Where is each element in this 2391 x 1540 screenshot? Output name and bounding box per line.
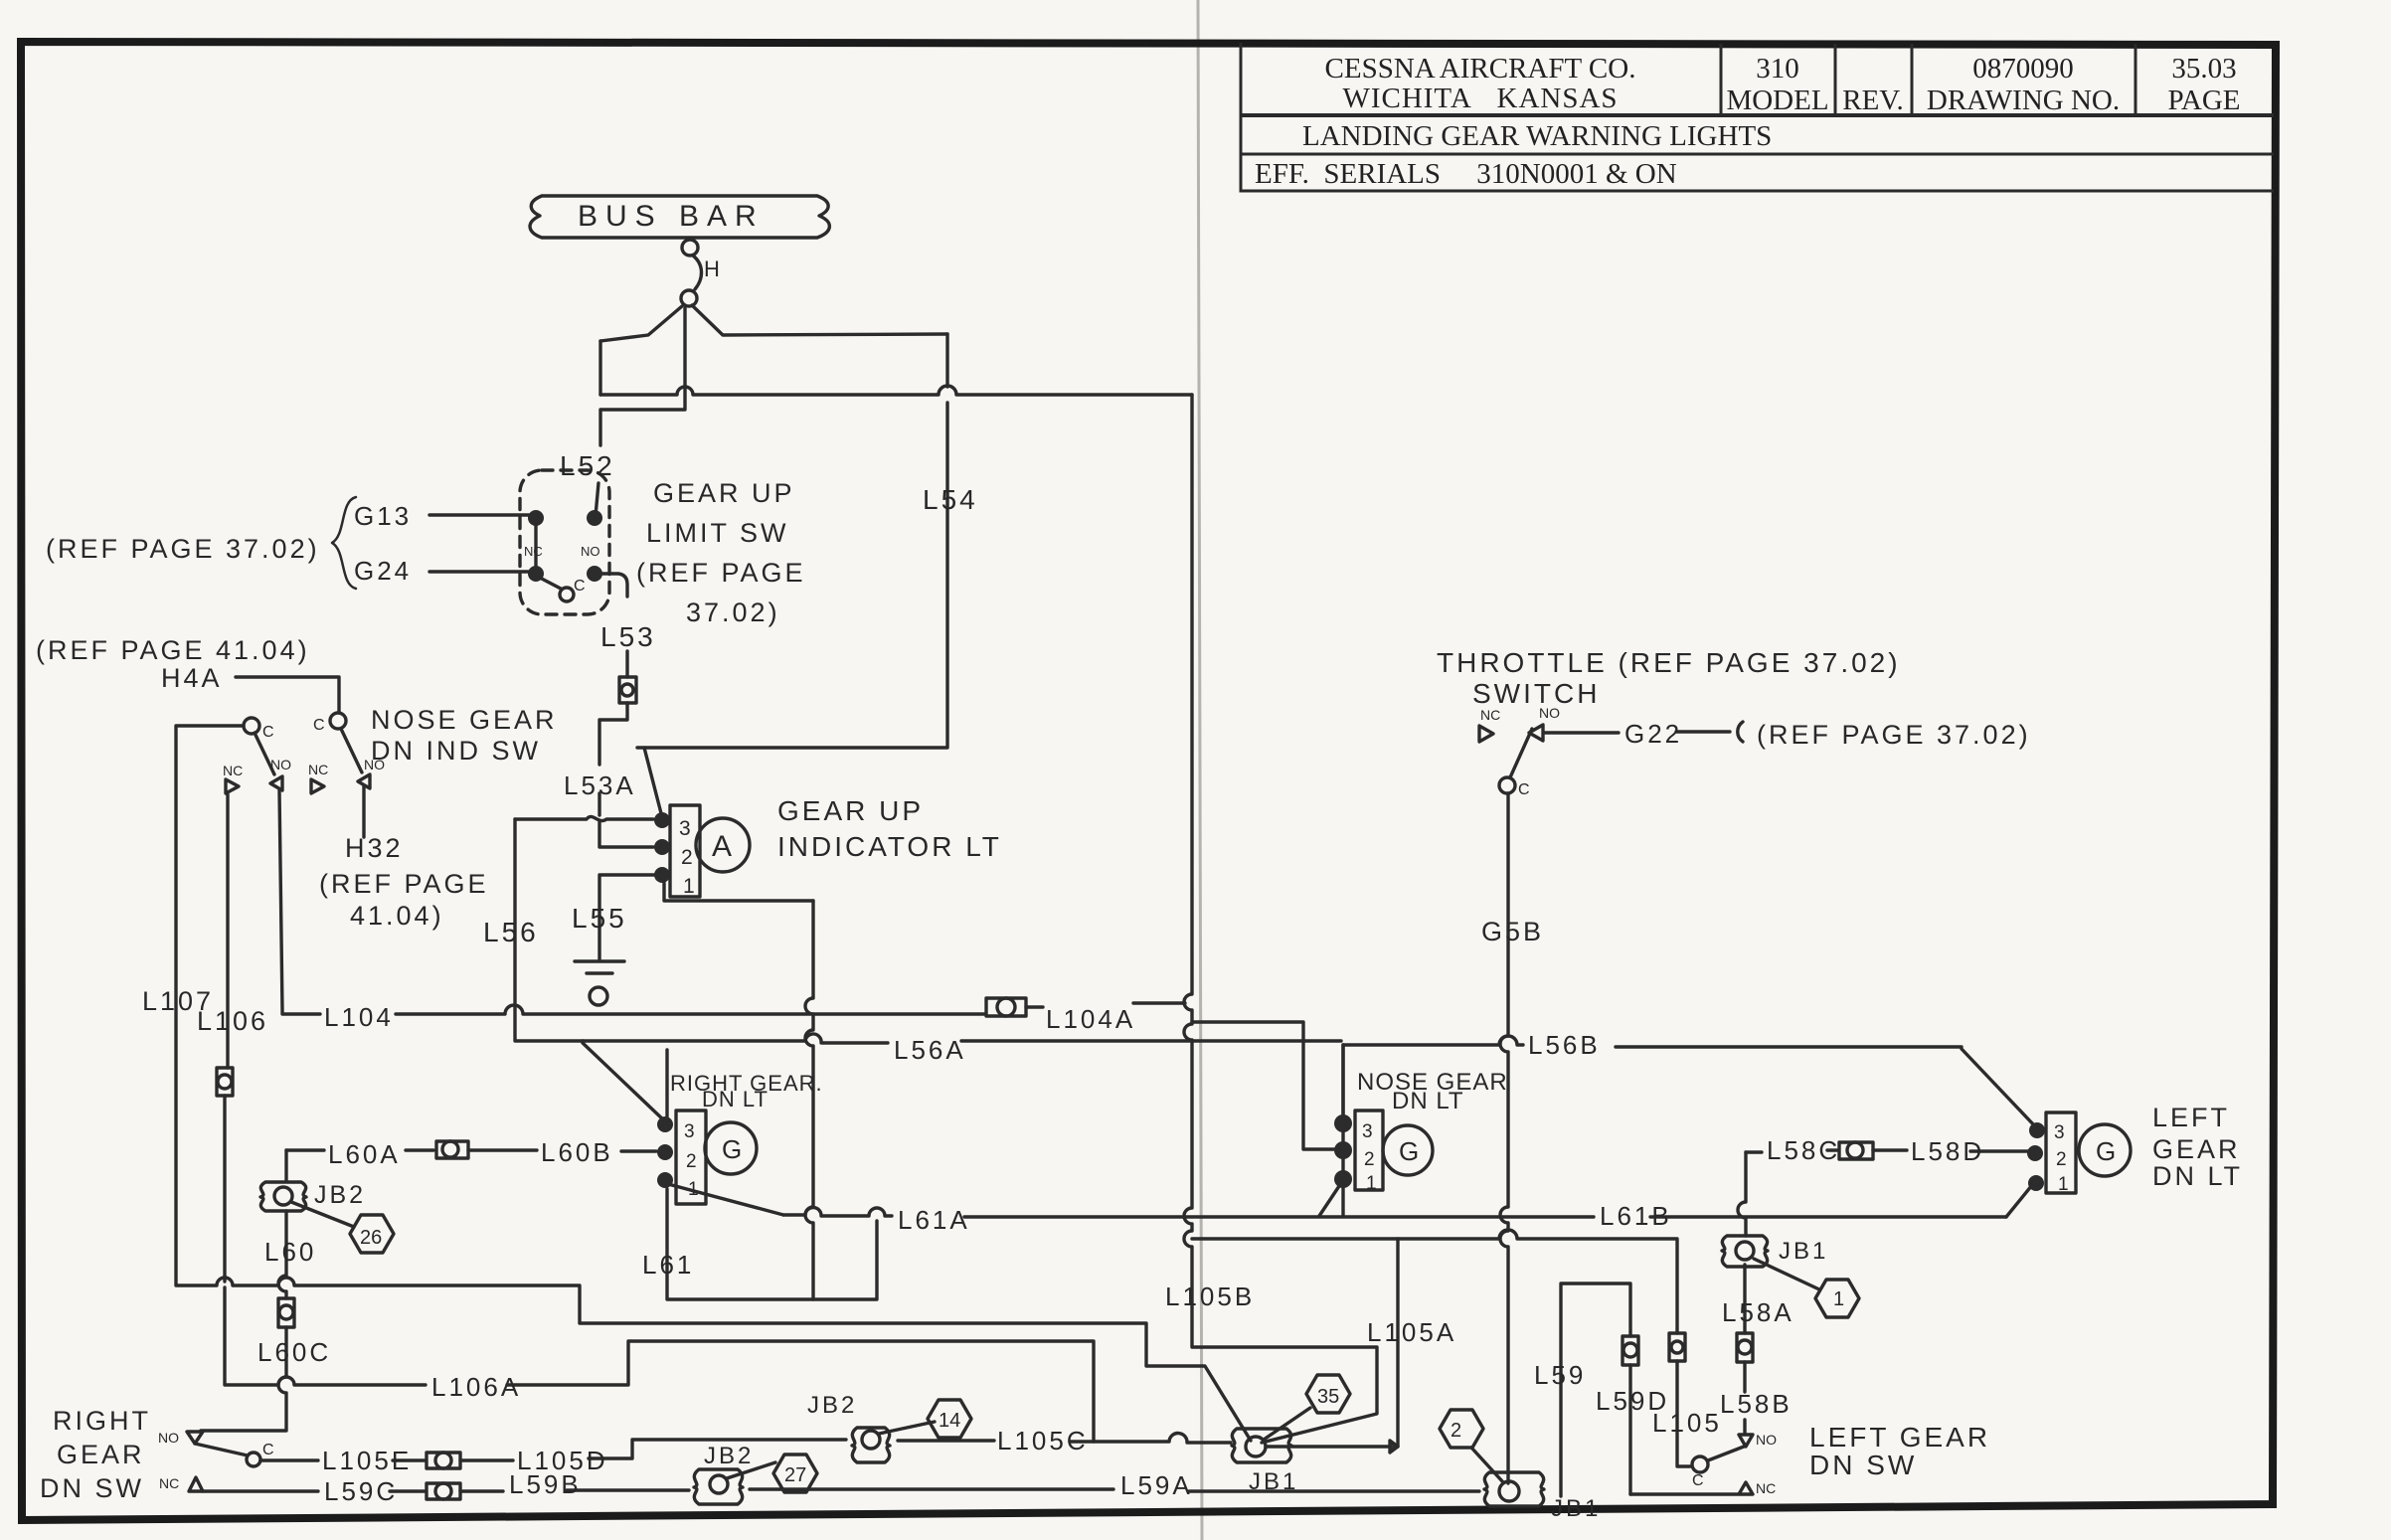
svg-text:NO: NO xyxy=(1539,705,1560,721)
svg-text:(REF PAGE 41.04): (REF PAGE 41.04) xyxy=(36,635,310,665)
svg-text:JB2: JB2 xyxy=(704,1443,754,1469)
svg-text:G13: G13 xyxy=(354,501,412,531)
svg-text:NC: NC xyxy=(1756,1480,1776,1496)
svg-text:L60: L60 xyxy=(264,1237,316,1267)
svg-text:L106A: L106A xyxy=(431,1372,521,1402)
svg-text:2: 2 xyxy=(686,1151,697,1172)
svg-text:L58A: L58A xyxy=(1722,1297,1794,1327)
svg-text:L105B: L105B xyxy=(1165,1282,1255,1311)
svg-text:37.02): 37.02) xyxy=(686,598,780,627)
svg-text:3: 3 xyxy=(2054,1122,2065,1143)
svg-text:DN IND SW: DN IND SW xyxy=(371,736,541,766)
svg-text:DN LT: DN LT xyxy=(1392,1088,1464,1114)
svg-text:L60C: L60C xyxy=(257,1337,331,1367)
svg-text:LEFT GEAR: LEFT GEAR xyxy=(1809,1422,1990,1453)
svg-text:41.04): 41.04) xyxy=(350,901,444,931)
svg-text:3: 3 xyxy=(1362,1121,1373,1142)
svg-text:14: 14 xyxy=(939,1410,960,1432)
svg-text:G: G xyxy=(2096,1136,2116,1166)
svg-text:L61: L61 xyxy=(642,1250,694,1280)
svg-text:THROTTLE (REF PAGE 37.02): THROTTLE (REF PAGE 37.02) xyxy=(1437,647,1901,678)
svg-text:DN SW: DN SW xyxy=(40,1473,144,1503)
svg-text:L59: L59 xyxy=(1534,1360,1586,1390)
svg-text:1: 1 xyxy=(683,875,695,898)
svg-text:(REF PAGE: (REF PAGE xyxy=(636,558,806,588)
svg-text:GEAR UP: GEAR UP xyxy=(653,478,795,508)
svg-text:L106: L106 xyxy=(197,1006,268,1036)
svg-text:REV.: REV. xyxy=(1842,85,1904,116)
svg-text:L59B: L59B xyxy=(509,1469,582,1499)
svg-text:35: 35 xyxy=(1317,1386,1339,1408)
svg-text:L105C: L105C xyxy=(997,1426,1089,1455)
svg-text:A: A xyxy=(712,830,732,863)
svg-text:H: H xyxy=(704,257,723,281)
svg-text:1: 1 xyxy=(2058,1174,2069,1195)
svg-text:L59A: L59A xyxy=(1120,1470,1193,1500)
svg-text:(REF PAGE 37.02): (REF PAGE 37.02) xyxy=(1757,720,2031,750)
svg-text:27: 27 xyxy=(784,1464,806,1486)
svg-text:1: 1 xyxy=(1366,1173,1377,1194)
svg-text:(REF PAGE 37.02): (REF PAGE 37.02) xyxy=(46,534,320,564)
svg-text:JB2: JB2 xyxy=(807,1392,857,1419)
svg-text:JB1: JB1 xyxy=(1779,1238,1828,1265)
svg-text:L104A: L104A xyxy=(1046,1004,1135,1034)
svg-text:26: 26 xyxy=(360,1227,382,1249)
svg-text:G24: G24 xyxy=(354,556,412,586)
svg-text:3: 3 xyxy=(679,817,691,840)
svg-text:JB1: JB1 xyxy=(1249,1468,1298,1495)
svg-text:L105A: L105A xyxy=(1367,1317,1456,1347)
svg-text:L104: L104 xyxy=(324,1002,394,1032)
svg-text:L61B: L61B xyxy=(1600,1201,1672,1231)
svg-text:L105E: L105E xyxy=(322,1446,412,1475)
svg-text:GEAR UP: GEAR UP xyxy=(777,795,924,826)
svg-text:NO: NO xyxy=(581,544,600,559)
svg-text:3: 3 xyxy=(684,1121,695,1142)
svg-text:INDICATOR LT: INDICATOR LT xyxy=(777,831,1002,862)
svg-text:GEAR: GEAR xyxy=(2152,1134,2241,1164)
svg-text:2: 2 xyxy=(2056,1149,2067,1170)
svg-text:NC: NC xyxy=(524,544,543,559)
svg-text:NO: NO xyxy=(270,757,291,772)
svg-text:L56B: L56B xyxy=(1528,1030,1601,1060)
svg-text:DN SW: DN SW xyxy=(1809,1450,1917,1480)
svg-text:L52: L52 xyxy=(560,450,615,481)
svg-text:G5B: G5B xyxy=(1481,917,1544,946)
svg-text:JB2: JB2 xyxy=(314,1181,366,1209)
svg-text:L60B: L60B xyxy=(541,1137,613,1167)
svg-text:G22: G22 xyxy=(1624,719,1682,749)
svg-text:DN LT: DN LT xyxy=(702,1087,769,1112)
svg-text:35.03: 35.03 xyxy=(2171,53,2236,85)
svg-text:PAGE: PAGE xyxy=(2167,85,2240,116)
svg-text:DRAWING NO.: DRAWING NO. xyxy=(1927,85,2120,116)
svg-text:C: C xyxy=(1518,781,1530,798)
svg-text:C: C xyxy=(1692,1472,1704,1489)
svg-text:1: 1 xyxy=(688,1179,699,1200)
svg-text:G: G xyxy=(1399,1136,1419,1166)
svg-text:NO: NO xyxy=(158,1430,179,1446)
svg-text:LANDING GEAR WARNING LIGHTS: LANDING GEAR WARNING LIGHTS xyxy=(1302,120,1772,152)
svg-text:0870090: 0870090 xyxy=(1972,53,2074,85)
svg-text:L58D: L58D xyxy=(1911,1136,1984,1166)
svg-text:NC: NC xyxy=(1480,707,1500,723)
svg-text:L105: L105 xyxy=(1652,1408,1722,1438)
svg-text:L53A: L53A xyxy=(564,770,636,800)
svg-text:GEAR: GEAR xyxy=(57,1440,145,1469)
svg-text:NC: NC xyxy=(223,763,243,778)
svg-text:2: 2 xyxy=(1364,1149,1375,1170)
svg-text:2: 2 xyxy=(1451,1420,1461,1442)
svg-text:C: C xyxy=(262,1442,274,1458)
svg-text:1: 1 xyxy=(1833,1288,1844,1310)
svg-text:L61A: L61A xyxy=(898,1205,970,1235)
svg-text:MODEL: MODEL xyxy=(1726,85,1828,116)
svg-text:LIMIT SW: LIMIT SW xyxy=(646,518,789,548)
svg-text:G: G xyxy=(722,1134,742,1164)
svg-text:NO: NO xyxy=(1756,1432,1777,1448)
svg-text:C: C xyxy=(313,717,325,734)
svg-text:H4A: H4A xyxy=(161,663,223,693)
svg-text:C: C xyxy=(574,578,586,595)
svg-text:L53: L53 xyxy=(600,621,656,652)
svg-text:L55: L55 xyxy=(572,903,627,934)
svg-text:L54: L54 xyxy=(923,484,978,515)
svg-text:WICHITA KANSAS: WICHITA KANSAS xyxy=(1342,83,1618,114)
svg-text:2: 2 xyxy=(681,846,693,869)
svg-text:(REF PAGE: (REF PAGE xyxy=(319,869,489,899)
svg-text:DN LT: DN LT xyxy=(2152,1161,2243,1191)
svg-text:LEFT: LEFT xyxy=(2152,1103,2230,1132)
svg-text:NC: NC xyxy=(159,1475,179,1491)
svg-text:L59C: L59C xyxy=(324,1476,398,1506)
svg-text:NC: NC xyxy=(308,762,328,777)
svg-text:BUS BAR: BUS BAR xyxy=(578,200,765,233)
svg-text:NOSE GEAR: NOSE GEAR xyxy=(371,705,558,735)
svg-text:JB1: JB1 xyxy=(1551,1495,1601,1522)
svg-text:310: 310 xyxy=(1756,53,1799,85)
svg-text:L56: L56 xyxy=(483,917,539,947)
svg-text:CESSNA AIRCRAFT CO.: CESSNA AIRCRAFT CO. xyxy=(1325,53,1636,85)
svg-text:L58B: L58B xyxy=(1720,1389,1793,1419)
svg-text:SWITCH: SWITCH xyxy=(1472,678,1600,709)
svg-text:L56A: L56A xyxy=(894,1035,966,1065)
svg-text:RIGHT: RIGHT xyxy=(53,1406,151,1436)
svg-text:H32: H32 xyxy=(345,833,404,863)
svg-text:L60A: L60A xyxy=(328,1139,401,1169)
svg-text:L58C: L58C xyxy=(1767,1135,1840,1165)
svg-text:EFF. SERIALS 310N0001 & O: EFF. SERIALS 310N0001 & ON xyxy=(1255,158,1677,190)
svg-text:C: C xyxy=(262,724,274,741)
